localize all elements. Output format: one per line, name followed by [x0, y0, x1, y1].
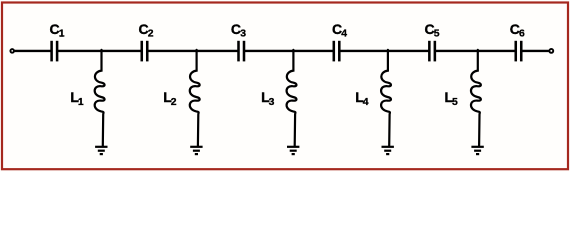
wire [521, 50, 549, 52]
svg-text:5: 5 [434, 29, 440, 40]
wire [435, 50, 516, 52]
ground [382, 147, 394, 154]
ground [471, 147, 483, 154]
wire [339, 50, 429, 52]
input terminal (left node) [10, 49, 14, 53]
svg-text:4: 4 [363, 97, 369, 108]
svg-text:2: 2 [148, 29, 154, 40]
capacitor C1 [52, 41, 58, 62]
label C6 [510, 21, 525, 40]
capacitor C3 [239, 41, 245, 62]
inductor L1 (with wire from junction) [95, 50, 105, 146]
label L1 [70, 89, 84, 108]
label L3 [261, 89, 275, 108]
capacitor C2 [142, 41, 148, 62]
label C5 [425, 21, 440, 40]
inductor L4 (with wire from junction) [381, 50, 391, 146]
ground [95, 147, 107, 154]
label C3 [231, 21, 246, 40]
label L2 [163, 89, 177, 108]
wire [14, 50, 51, 52]
capacitor C5 [429, 41, 435, 62]
wire [147, 50, 238, 52]
svg-text:6: 6 [519, 29, 525, 40]
svg-text:5: 5 [452, 97, 458, 108]
ground [287, 147, 299, 154]
label L4 [355, 89, 369, 108]
svg-text:3: 3 [240, 29, 246, 40]
wire [57, 50, 141, 52]
label C4 [332, 21, 347, 40]
label L5 [445, 89, 459, 108]
inductor L5 (with wire from junction) [471, 50, 481, 146]
svg-text:1: 1 [59, 29, 65, 40]
svg-text:1: 1 [78, 97, 84, 108]
inductor L3 (with wire from junction) [287, 50, 297, 146]
capacitor C6 [516, 41, 522, 62]
capacitor C4 [334, 41, 340, 62]
inductor L2 (with wire from junction) [190, 50, 200, 146]
label C2 [139, 21, 154, 40]
output terminal (right node) [549, 49, 553, 53]
svg-text:2: 2 [171, 97, 177, 108]
wire [244, 50, 334, 52]
ground [190, 147, 202, 154]
svg-text:3: 3 [269, 97, 275, 108]
label C1 [50, 21, 65, 40]
svg-text:4: 4 [341, 29, 347, 40]
